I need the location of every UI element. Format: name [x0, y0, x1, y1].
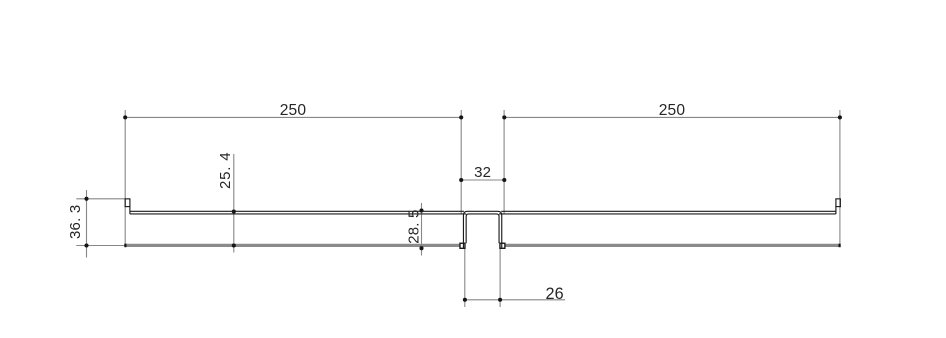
svg-text:26: 26 [545, 285, 563, 303]
svg-text:250: 250 [659, 102, 686, 119]
svg-text:32: 32 [474, 164, 491, 181]
svg-text:28. 5: 28. 5 [406, 209, 423, 243]
svg-text:250: 250 [280, 102, 307, 119]
svg-text:36. 3: 36. 3 [67, 205, 84, 239]
svg-text:25. 4: 25. 4 [217, 152, 234, 189]
